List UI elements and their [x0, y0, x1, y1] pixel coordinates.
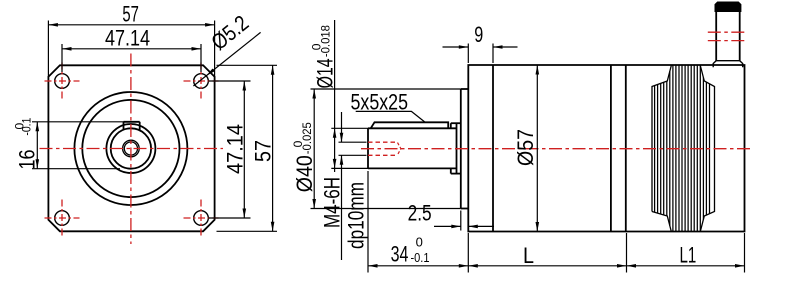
svg-text:34: 34 — [391, 242, 409, 267]
svg-text:Ø40: Ø40 — [292, 155, 317, 192]
svg-text:Ø57: Ø57 — [513, 129, 538, 166]
svg-text:57: 57 — [122, 2, 138, 27]
svg-text:-0.018: -0.018 — [319, 25, 333, 57]
svg-text:L1: L1 — [680, 243, 697, 268]
svg-text:-0.025: -0.025 — [300, 122, 314, 154]
svg-text:9: 9 — [474, 22, 483, 47]
svg-text:-0.1: -0.1 — [20, 117, 34, 135]
svg-text:-0.1: -0.1 — [411, 250, 430, 265]
svg-text:47.14: 47.14 — [105, 25, 150, 50]
svg-text:dp10mm: dp10mm — [344, 182, 369, 249]
svg-text:M4-6H: M4-6H — [320, 177, 345, 228]
svg-text:Ø14: Ø14 — [313, 58, 338, 88]
svg-text:L: L — [523, 243, 534, 268]
svg-text:47.14: 47.14 — [223, 124, 248, 174]
svg-text:16: 16 — [14, 150, 39, 170]
svg-text:2.5: 2.5 — [408, 200, 432, 225]
svg-text:5x5x25: 5x5x25 — [351, 89, 409, 114]
svg-text:0: 0 — [416, 235, 423, 250]
svg-text:57: 57 — [251, 140, 276, 162]
